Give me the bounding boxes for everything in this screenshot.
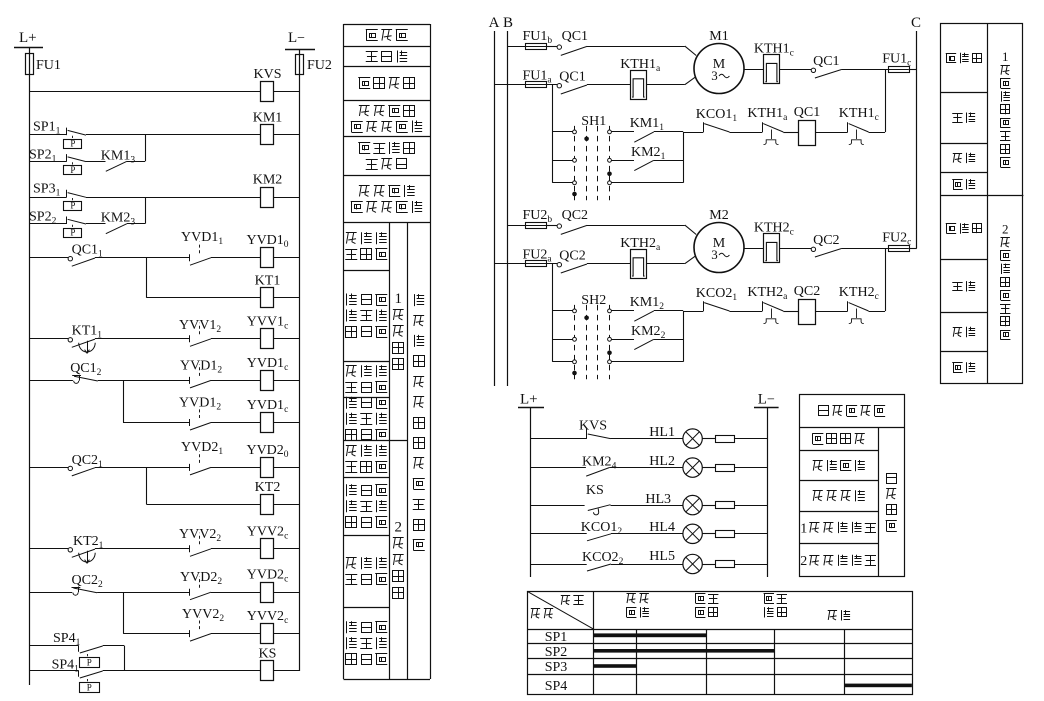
svg-text:YVD1c: YVD1c bbox=[247, 356, 289, 373]
svg-text:1: 1 bbox=[800, 521, 807, 536]
svg-text:QC1: QC1 bbox=[562, 29, 588, 44]
svg-text:FU1c: FU1c bbox=[882, 52, 911, 69]
svg-text:A: A bbox=[489, 15, 500, 31]
svg-text:L−: L− bbox=[288, 30, 305, 46]
svg-text:YVD22: YVD22 bbox=[180, 570, 222, 587]
svg-text:HL2: HL2 bbox=[649, 454, 675, 469]
svg-text:L+: L+ bbox=[520, 392, 538, 408]
svg-text:KVS: KVS bbox=[253, 67, 281, 82]
svg-text:YVD11: YVD11 bbox=[181, 230, 223, 247]
svg-text:YVV2c: YVV2c bbox=[247, 524, 289, 541]
svg-text:KM1: KM1 bbox=[253, 110, 283, 125]
svg-text:KTH2c: KTH2c bbox=[839, 285, 879, 302]
svg-text:KT2: KT2 bbox=[255, 480, 281, 495]
svg-text:KM23: KM23 bbox=[101, 211, 136, 228]
svg-text:HL1: HL1 bbox=[649, 425, 675, 440]
svg-text:KTH2a: KTH2a bbox=[620, 236, 661, 253]
svg-text:YVV2c: YVV2c bbox=[247, 609, 289, 626]
svg-text:KTH2a: KTH2a bbox=[747, 285, 788, 302]
svg-text:KTH1a: KTH1a bbox=[620, 57, 661, 74]
svg-text:SP2: SP2 bbox=[545, 645, 568, 660]
svg-text:3: 3 bbox=[711, 68, 718, 83]
svg-text:QC1: QC1 bbox=[813, 54, 839, 69]
svg-text:YVD2c: YVD2c bbox=[247, 568, 289, 585]
svg-text:YVV22: YVV22 bbox=[182, 607, 224, 624]
svg-text:KM12: KM12 bbox=[630, 295, 665, 312]
svg-text:P: P bbox=[70, 227, 75, 237]
svg-text:YVD12: YVD12 bbox=[179, 396, 221, 413]
svg-text:2: 2 bbox=[1002, 222, 1009, 237]
svg-text:KCO11: KCO11 bbox=[696, 107, 738, 124]
svg-text:KCO12: KCO12 bbox=[581, 520, 623, 537]
svg-text:KM2: KM2 bbox=[253, 173, 283, 188]
svg-text:KVS: KVS bbox=[579, 419, 607, 434]
svg-text:HL5: HL5 bbox=[649, 549, 675, 564]
svg-text:P: P bbox=[70, 201, 75, 211]
svg-text:KS: KS bbox=[259, 646, 277, 661]
svg-text:KM24: KM24 bbox=[582, 455, 617, 472]
svg-text:YVV1c: YVV1c bbox=[247, 314, 289, 331]
svg-text:YVD1c: YVD1c bbox=[247, 398, 289, 415]
svg-text:KTH2c: KTH2c bbox=[754, 221, 794, 238]
svg-text:KM11: KM11 bbox=[630, 116, 665, 133]
svg-text:KCO21: KCO21 bbox=[696, 286, 738, 303]
svg-text:KT1: KT1 bbox=[255, 273, 281, 288]
svg-text:2: 2 bbox=[800, 554, 807, 569]
svg-text:KM13: KM13 bbox=[101, 148, 136, 165]
svg-text:C: C bbox=[911, 15, 921, 31]
svg-text:YVV22: YVV22 bbox=[179, 527, 221, 544]
svg-text:HL4: HL4 bbox=[649, 520, 675, 535]
svg-text:B: B bbox=[503, 15, 513, 31]
svg-text:YVD21: YVD21 bbox=[181, 440, 223, 457]
svg-text:SH1: SH1 bbox=[581, 114, 606, 129]
svg-text:SP1: SP1 bbox=[545, 630, 568, 645]
svg-text:1: 1 bbox=[394, 291, 402, 307]
svg-text:QC2: QC2 bbox=[813, 233, 839, 248]
svg-text:KCO22: KCO22 bbox=[582, 550, 624, 567]
svg-text:QC1: QC1 bbox=[794, 105, 820, 120]
svg-text:KTH1c: KTH1c bbox=[754, 42, 794, 59]
svg-text:FU2c: FU2c bbox=[882, 231, 911, 248]
svg-text:QC1: QC1 bbox=[559, 70, 585, 85]
svg-text:1: 1 bbox=[1002, 49, 1009, 64]
svg-text:QC2: QC2 bbox=[794, 284, 820, 299]
svg-text:KTH1a: KTH1a bbox=[747, 106, 788, 123]
svg-text:KM22: KM22 bbox=[631, 324, 666, 341]
svg-text:QC2: QC2 bbox=[562, 208, 588, 223]
svg-text:3: 3 bbox=[711, 247, 718, 262]
svg-text:M1: M1 bbox=[709, 29, 728, 44]
svg-text:P: P bbox=[70, 165, 75, 175]
svg-text:L−: L− bbox=[758, 392, 775, 408]
svg-text:P: P bbox=[70, 138, 75, 148]
svg-text:YVD10: YVD10 bbox=[246, 233, 288, 250]
svg-text:SP4: SP4 bbox=[545, 679, 568, 694]
svg-text:HL3: HL3 bbox=[645, 492, 671, 507]
svg-text:P: P bbox=[87, 658, 92, 668]
svg-text:YVD12: YVD12 bbox=[180, 358, 222, 375]
svg-text:KTH1c: KTH1c bbox=[839, 106, 879, 123]
svg-text:SH2: SH2 bbox=[581, 293, 606, 308]
svg-text:P: P bbox=[87, 683, 92, 693]
svg-text:M2: M2 bbox=[709, 208, 728, 223]
svg-text:SP3: SP3 bbox=[545, 660, 568, 675]
svg-text:QC2: QC2 bbox=[559, 249, 585, 264]
svg-text:YVV12: YVV12 bbox=[179, 318, 221, 335]
svg-text:YVD20: YVD20 bbox=[246, 443, 288, 460]
svg-text:FU2: FU2 bbox=[307, 58, 332, 73]
svg-text:2: 2 bbox=[394, 520, 402, 536]
svg-text:KS: KS bbox=[586, 483, 604, 498]
svg-text:FU1: FU1 bbox=[36, 58, 61, 73]
svg-text:KM21: KM21 bbox=[631, 145, 666, 162]
svg-text:L+: L+ bbox=[19, 30, 37, 46]
